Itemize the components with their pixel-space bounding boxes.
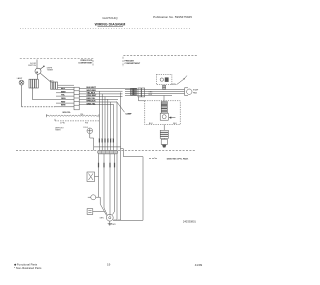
- svg-text:ORG: ORG: [61, 98, 66, 100]
- svg-text:WHT-RED: WHT-RED: [87, 90, 97, 92]
- svg-text:GRN: GRN: [172, 84, 177, 86]
- svg-text:EVAP: EVAP: [193, 89, 199, 92]
- svg-text:YEL-BLK: YEL-BLK: [87, 93, 96, 95]
- svg-text:BLK: BLK: [149, 123, 153, 125]
- svg-text:GRN-YEL: GRN-YEL: [87, 103, 97, 105]
- svg-text:GRN-YEL: GRN-YEL: [62, 112, 71, 114]
- svg-text:TIMER: TIMER: [47, 70, 54, 72]
- svg-text:FAN: FAN: [193, 91, 197, 94]
- svg-text:SWITCH: SWITCH: [28, 65, 36, 67]
- svg-text:ORG: ORG: [149, 91, 154, 93]
- svg-text:COLD: COLD: [83, 127, 89, 129]
- svg-text:GLRT214Q: GLRT214Q: [102, 16, 118, 20]
- svg-text:LAMP: LAMP: [17, 77, 23, 80]
- svg-text:19: 19: [107, 262, 111, 266]
- svg-text:COMPARTMENT: COMPARTMENT: [125, 62, 141, 65]
- svg-text:BLK: BLK: [173, 123, 177, 125]
- svg-text:Publication No. 5995475945: Publication No. 5995475945: [153, 15, 192, 19]
- svg-text:WIRING DIAGRAM: WIRING DIAGRAM: [95, 23, 126, 27]
- svg-text:BRN-BLK: BRN-BLK: [87, 101, 97, 103]
- svg-text:WHT: WHT: [61, 91, 66, 93]
- svg-text:COMP: COMP: [126, 114, 133, 116]
- svg-text:41/99: 41/99: [195, 263, 203, 267]
- svg-text:GRN: GRN: [100, 218, 105, 220]
- svg-text:RED-YEL: RED-YEL: [87, 98, 97, 100]
- svg-text:RED: RED: [61, 102, 66, 104]
- svg-text:BRN: BRN: [61, 105, 66, 107]
- svg-text:TIMER: TIMER: [55, 130, 61, 132]
- svg-text:PWR: PWR: [111, 224, 116, 226]
- svg-text:240330801: 240330801: [183, 219, 197, 223]
- svg-text:ORG-WHT: ORG-WHT: [87, 95, 98, 97]
- svg-text:COMPARTMENT: COMPARTMENT: [78, 61, 93, 64]
- svg-text:ADC: ADC: [50, 79, 55, 82]
- svg-text:4 PIN: 4 PIN: [60, 123, 65, 125]
- svg-text:BLK: BLK: [61, 88, 66, 90]
- svg-text:* Non-Illustrated Parts: * Non-Illustrated Parts: [14, 266, 42, 270]
- svg-text:BLK-WHT: BLK-WHT: [87, 87, 97, 89]
- svg-text:DENOTES OPTL FEAT.: DENOTES OPTL FEAT.: [167, 158, 189, 161]
